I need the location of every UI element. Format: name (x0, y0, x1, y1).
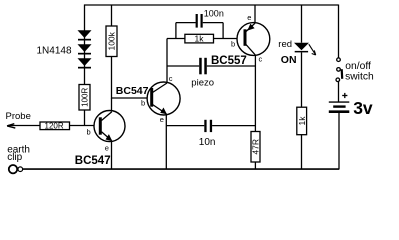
label earth (7, 145, 30, 156)
svg-text:switch: switch (345, 71, 374, 82)
label BC547 of Q2 (116, 85, 149, 97)
transistor Q2 BC547 (147, 82, 180, 115)
wire switch to battery (338, 82, 340, 102)
label e of Q1 (105, 144, 109, 153)
svg-text:100n: 100n (204, 8, 224, 18)
svg-text:1k: 1k (297, 116, 307, 126)
wire Q1 emitter to ground (111, 141, 113, 170)
wire rail right drop to switch (338, 5, 340, 58)
svg-text:e: e (247, 13, 251, 22)
wire 100n left lead (176, 22, 196, 24)
wire piezo left lead (167, 65, 199, 67)
wire Q3 emitter to rail (254, 5, 256, 24)
wire 100n left drop (175, 23, 177, 39)
label red (278, 39, 292, 50)
transistor Q1 BC547 (94, 111, 125, 142)
svg-text:piezo: piezo (191, 77, 214, 88)
wire battery to ground (338, 113, 340, 170)
wire top positive rail (84, 4, 339, 6)
svg-text:120R: 120R (45, 122, 64, 131)
wire 100R to base node (84, 110, 86, 126)
capacitor C1 100n (196, 14, 203, 28)
wire rail to LED (301, 5, 303, 43)
battery BT1 (329, 93, 350, 112)
wire 120R to Q1 base (70, 125, 101, 127)
LED D4 red (294, 43, 316, 55)
wire 100n right lead (203, 22, 223, 24)
svg-text:c: c (169, 74, 173, 83)
label c of Q2 (169, 74, 173, 83)
diode D2 1N4148 (78, 44, 92, 54)
svg-text:e: e (105, 144, 109, 153)
label piezo (191, 77, 214, 88)
label 3v (353, 98, 373, 118)
svg-text:10n: 10n (199, 137, 216, 148)
wire Q2 collector up to feedback node (166, 39, 168, 84)
wire bottom ground rail (23, 168, 339, 170)
svg-text:1k: 1k (195, 34, 205, 44)
resistor 1k feedback (185, 34, 214, 44)
capacitor piezo (199, 58, 207, 75)
diode D3 1N4148 (78, 58, 92, 68)
label e of Q3 (247, 13, 251, 22)
capacitor C2 10n (204, 120, 212, 132)
wire diode branch from rail (84, 5, 86, 85)
label e of Q2 (160, 115, 164, 124)
label BC557 of Q3 (211, 55, 247, 67)
svg-text:red: red (278, 39, 292, 50)
label Probe (6, 111, 31, 122)
svg-text:100k: 100k (107, 31, 117, 50)
label clip (7, 152, 22, 163)
wire 10n to 47R node (212, 125, 255, 127)
svg-text:BC557: BC557 (211, 55, 247, 67)
label c of Q3 (259, 54, 263, 63)
svg-text:1N4148: 1N4148 (37, 46, 72, 57)
wire probe to 120R (8, 125, 40, 127)
wire Q1 collector to node (111, 98, 113, 112)
wire LED to 1k (301, 52, 303, 107)
wire Q2 emitter down to ground (165, 114, 167, 169)
svg-text:ON: ON (281, 54, 297, 66)
diode D1 1N4148 (78, 30, 92, 40)
label b of Q2 (141, 98, 145, 107)
wire node to Q2 base (112, 97, 152, 99)
wire rail to 100k (111, 5, 113, 27)
label ON (281, 54, 297, 66)
svg-text:3v: 3v (353, 98, 373, 118)
svg-text:b: b (87, 128, 91, 137)
resistor 120R (40, 122, 70, 131)
svg-text:clip: clip (7, 152, 22, 163)
resistor R5 1k (297, 107, 307, 135)
svg-text:c: c (259, 54, 263, 63)
probe arrow tip (7, 124, 15, 128)
resistor 100k (106, 26, 117, 57)
label 100n (204, 8, 224, 18)
wire 47R to ground (254, 162, 256, 169)
resistor 47R (251, 132, 261, 163)
svg-text:Probe: Probe (6, 111, 31, 122)
wire feedback node to 1k (167, 38, 185, 40)
label 10n (199, 137, 216, 148)
svg-text:e: e (160, 115, 164, 124)
wire 1k to BC557 base (214, 38, 245, 40)
svg-text:BC547: BC547 (75, 155, 111, 167)
switch S1 on/off (336, 58, 342, 82)
label BC547 of Q1 (75, 155, 111, 167)
transistor Q3 BC557 (237, 23, 270, 56)
wire 1k to ground (301, 135, 303, 169)
svg-text:b: b (141, 98, 145, 107)
resistor 100R (79, 85, 90, 111)
svg-text:100R: 100R (81, 88, 90, 107)
svg-text:BC547: BC547 (116, 85, 149, 97)
wire piezo right lead (207, 65, 256, 67)
label switch (345, 71, 374, 82)
label on/off (345, 61, 371, 72)
wire Q2 emitter to 10n (166, 125, 204, 127)
wire 100n right drop (222, 23, 224, 39)
wire Q3 collector down to 47R (254, 55, 256, 132)
label b of Q1 (87, 128, 91, 137)
svg-text:b: b (231, 39, 235, 48)
wire 100k to node (111, 57, 113, 99)
earth clip connector (9, 165, 23, 173)
label b of Q3 (231, 39, 235, 48)
label 1N4148 (37, 46, 72, 57)
svg-text:47R: 47R (251, 139, 261, 155)
